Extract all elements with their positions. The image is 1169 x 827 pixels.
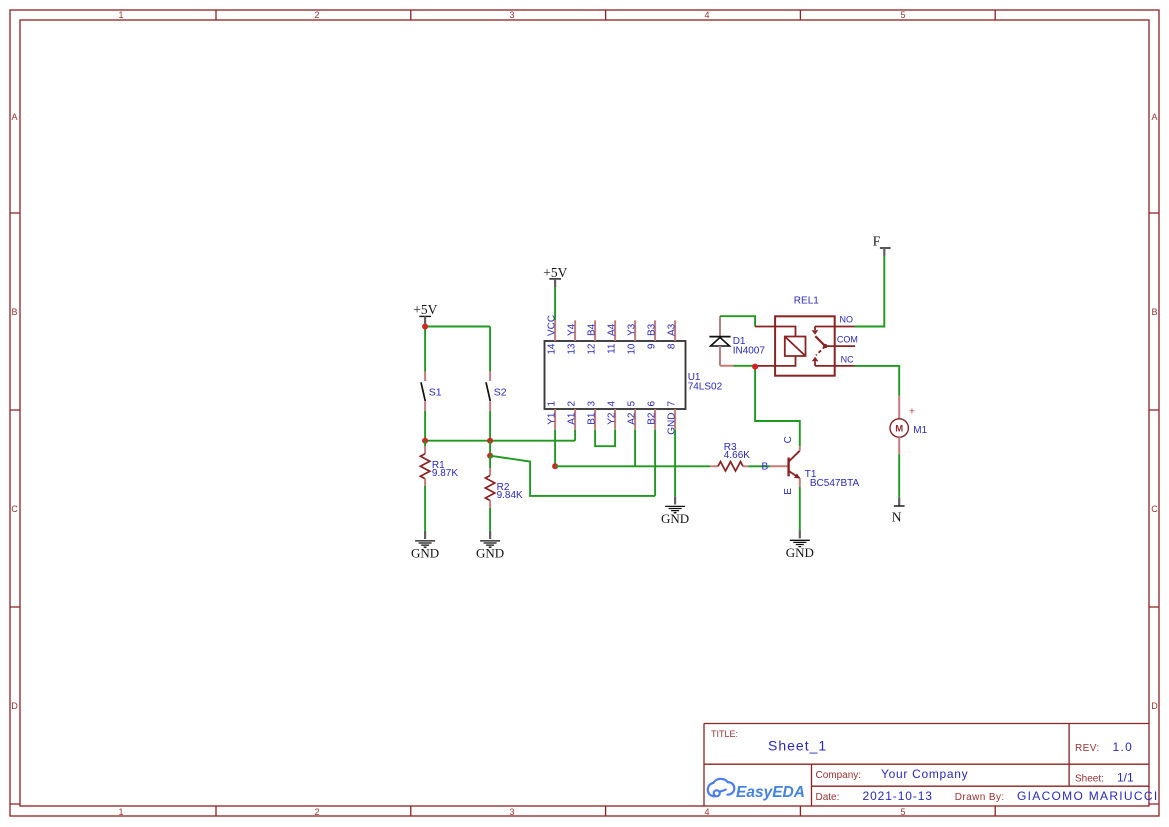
- switch S2: [486, 372, 507, 411]
- wire pin5 to node: [634, 430, 636, 466]
- wire pin6 down: [654, 430, 656, 496]
- motor M1: [890, 396, 928, 455]
- svg-text:11: 11: [607, 343, 618, 354]
- svg-text:Sheet:: Sheet:: [1075, 774, 1104, 785]
- svg-text:+5V: +5V: [413, 302, 437, 317]
- svg-text:A3: A3: [667, 323, 678, 336]
- svg-text:Your Company: Your Company: [881, 767, 968, 781]
- ground GND (U1 pin7): [661, 496, 689, 526]
- wire R3 to T1 base: [748, 465, 770, 467]
- relay REL1: [755, 295, 858, 375]
- ground GND (T1): [786, 530, 814, 560]
- svg-text:B: B: [1151, 307, 1157, 317]
- svg-text:NO: NO: [840, 314, 854, 324]
- wire R2 to GND: [489, 508, 491, 531]
- U1 top pin names: [547, 315, 678, 336]
- svg-text:TITLE:: TITLE:: [711, 729, 738, 739]
- svg-text:C: C: [783, 436, 794, 443]
- transistor T1: [770, 436, 860, 495]
- U1 bottom pins 1-7: [555, 409, 675, 430]
- wire T1 collector to relay coil: [755, 367, 800, 447]
- net flag N: [892, 498, 905, 525]
- svg-text:4: 4: [704, 10, 709, 20]
- svg-text:B3: B3: [647, 323, 658, 336]
- wire T1 emitter to GND: [799, 487, 801, 530]
- power flag +5V (U1): [543, 265, 567, 287]
- wire R1 to GND: [424, 486, 426, 531]
- svg-text:GND: GND: [411, 546, 439, 561]
- svg-text:B4: B4: [587, 323, 598, 336]
- svg-text:A2: A2: [627, 412, 638, 425]
- svg-text:A4: A4: [607, 323, 618, 336]
- U1 bottom pin names: [547, 412, 678, 435]
- svg-text:4: 4: [607, 401, 618, 407]
- wire +5V to pin14: [554, 287, 556, 320]
- U1 top pin numbers: [547, 343, 678, 355]
- REL1 NO pin: [815, 326, 855, 328]
- wire bus to pin2: [425, 430, 575, 441]
- junction R2 top: [487, 453, 493, 459]
- svg-text:VCC: VCC: [547, 315, 558, 336]
- svg-text:Y3: Y3: [627, 323, 638, 336]
- REL1 pivot: [823, 344, 827, 348]
- wire NO to F: [855, 256, 885, 327]
- svg-text:2: 2: [314, 807, 319, 817]
- wire pin3-pin4 jumper: [595, 430, 615, 447]
- title block lines: [704, 724, 1149, 807]
- svg-text:S1: S1: [429, 386, 442, 398]
- REL1 coil box: [785, 337, 806, 357]
- wire +5V to S1 top: [424, 327, 426, 372]
- REL1 COM pin: [825, 345, 855, 347]
- svg-text:9: 9: [647, 343, 658, 349]
- svg-text:1: 1: [547, 401, 558, 407]
- svg-text:+: +: [909, 406, 915, 418]
- wire NC to motor: [855, 366, 900, 396]
- REL1 NC pin: [815, 365, 855, 367]
- frame left ruler ticks: [10, 213, 20, 804]
- EasyEDA logo cloud: [708, 779, 735, 797]
- svg-text:5: 5: [627, 401, 638, 407]
- svg-text:GIACOMO MARIUCCI: GIACOMO MARIUCCI: [1017, 789, 1158, 803]
- wire S2 bottom to bus: [489, 411, 491, 441]
- svg-text:M: M: [895, 423, 903, 434]
- svg-text:Y2: Y2: [607, 412, 618, 425]
- svg-text:B: B: [762, 462, 769, 473]
- power flag +5V (left): [413, 302, 437, 325]
- svg-text:4: 4: [704, 807, 709, 817]
- svg-text:7: 7: [667, 401, 678, 407]
- svg-text:3: 3: [587, 401, 598, 407]
- junction pin1 node: [552, 463, 558, 469]
- svg-text:Sheet_1: Sheet_1: [768, 738, 827, 754]
- IC U1 74LS02: [545, 315, 723, 435]
- svg-text:GND: GND: [786, 545, 814, 560]
- svg-text:13: 13: [567, 343, 578, 355]
- svg-text:REL1: REL1: [794, 295, 819, 306]
- svg-text:74LS02: 74LS02: [688, 381, 723, 392]
- svg-text:Y4: Y4: [567, 323, 578, 336]
- REL1 coil pin 2: [755, 356, 795, 366]
- svg-text:1.0: 1.0: [1113, 740, 1134, 754]
- frame bottom ruler ticks: [216, 806, 995, 816]
- svg-text:9.87K: 9.87K: [432, 468, 458, 479]
- resistor R1: [420, 441, 458, 487]
- REL1 NO contact: [814, 327, 816, 331]
- svg-text:S2: S2: [494, 386, 507, 398]
- svg-text:A1: A1: [567, 412, 578, 425]
- svg-text:10: 10: [627, 343, 638, 355]
- svg-text:A: A: [11, 112, 17, 122]
- svg-text:IN4007: IN4007: [733, 346, 766, 357]
- wire node to R3: [555, 465, 710, 467]
- svg-text:NC: NC: [841, 354, 854, 364]
- svg-text:F: F: [873, 234, 881, 249]
- wire D1 top to relay: [720, 316, 755, 326]
- svg-text:8: 8: [667, 343, 678, 349]
- svg-text:N: N: [892, 510, 902, 525]
- wire R2 node to pin6: [490, 456, 655, 496]
- ground GND (R2): [476, 531, 504, 561]
- resistor R2: [485, 456, 523, 508]
- svg-text:1: 1: [118, 10, 123, 20]
- wire pin1 to node: [554, 430, 556, 467]
- svg-text:COM: COM: [837, 334, 858, 344]
- frame right letters: [1151, 112, 1158, 711]
- svg-text:14: 14: [547, 343, 558, 355]
- switch S1: [421, 372, 442, 411]
- svg-text:B1: B1: [587, 412, 598, 425]
- REL1 armature: [815, 336, 825, 346]
- svg-text:12: 12: [587, 343, 598, 355]
- svg-text:3: 3: [509, 10, 514, 20]
- net flag F: [873, 234, 891, 257]
- svg-text:GND: GND: [661, 511, 689, 526]
- svg-text:A: A: [1151, 112, 1157, 122]
- svg-text:D: D: [1151, 701, 1158, 711]
- REL1 NC arrow: [812, 357, 819, 362]
- svg-text:5: 5: [900, 10, 905, 20]
- svg-text:2: 2: [314, 10, 319, 20]
- U1 top pins 14-8: [555, 320, 675, 341]
- svg-text:6: 6: [647, 401, 658, 407]
- svg-text:1/1: 1/1: [1117, 771, 1134, 785]
- junction bus S2: [487, 438, 493, 444]
- wire motor to N: [898, 454, 900, 498]
- svg-text:Company:: Company:: [816, 770, 862, 781]
- wire D1 bottom to junction: [733, 365, 755, 367]
- svg-text:3: 3: [509, 807, 514, 817]
- frame top numbers: [118, 10, 905, 20]
- frame bottom numbers: [118, 807, 905, 817]
- svg-text:C: C: [11, 504, 18, 514]
- wire S1 bottom to bus: [424, 411, 426, 441]
- ground GND (R1): [411, 531, 439, 561]
- wire S2 to R2: [489, 441, 491, 456]
- svg-text:B: B: [11, 307, 17, 317]
- junction bus S1: [422, 438, 428, 444]
- frame top ruler ticks: [216, 10, 995, 20]
- svg-text:1: 1: [118, 807, 123, 817]
- svg-text:GND: GND: [476, 546, 504, 561]
- svg-text:2: 2: [567, 401, 578, 407]
- svg-text:BC547BTA: BC547BTA: [810, 478, 860, 489]
- wire pin7 to GND: [674, 430, 676, 497]
- TITLE BLOCK: [704, 724, 1158, 807]
- svg-text:D: D: [11, 701, 18, 711]
- REL1 NC dashed armature: [816, 346, 825, 355]
- svg-text:B2: B2: [647, 412, 658, 425]
- svg-text:Drawn By:: Drawn By:: [955, 792, 1005, 803]
- CIRCUIT: [411, 234, 928, 561]
- junction relay coil node: [752, 364, 758, 370]
- svg-text:M1: M1: [913, 425, 927, 436]
- svg-text:Y1: Y1: [547, 412, 558, 425]
- svg-text:REV:: REV:: [1075, 743, 1100, 754]
- frame right ruler ticks: [1149, 213, 1159, 804]
- svg-text:9.84K: 9.84K: [497, 490, 523, 501]
- svg-text:5: 5: [900, 807, 905, 817]
- svg-text:EasyEDA: EasyEDA: [736, 784, 805, 801]
- svg-text:2021-10-13: 2021-10-13: [863, 789, 933, 803]
- svg-text:4.66K: 4.66K: [724, 450, 750, 461]
- diode D1 IN4007: [709, 316, 765, 366]
- U1 bottom pin numbers: [547, 401, 678, 407]
- svg-text:C: C: [1151, 504, 1158, 514]
- svg-text:Date:: Date:: [816, 792, 840, 803]
- wire +5V to S2 top: [425, 327, 490, 372]
- frame left letters: [11, 112, 18, 711]
- REL1 coil pin 1: [755, 327, 795, 337]
- svg-text:E: E: [783, 488, 794, 495]
- junction +5V: [422, 324, 428, 330]
- resistor R3: [710, 442, 750, 471]
- svg-text:+5V: +5V: [543, 265, 567, 280]
